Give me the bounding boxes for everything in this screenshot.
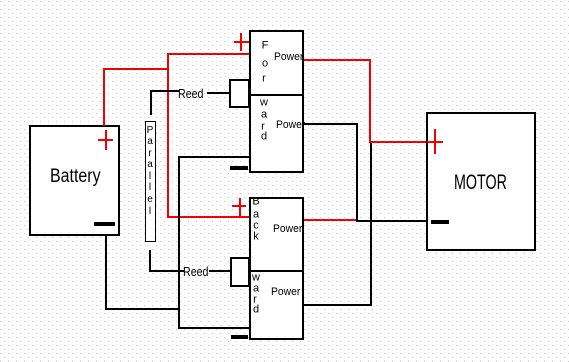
reed box K1 bbox=[229, 79, 250, 108]
plus mark forward relay horizontal bbox=[234, 41, 249, 43]
wire ground bus vertical bbox=[178, 156, 180, 329]
motor minus bbox=[431, 220, 449, 224]
wire reed1 horizontal left bbox=[150, 90, 179, 92]
relay U1 divider bbox=[249, 94, 304, 96]
motor box bbox=[426, 112, 536, 251]
relay U1 power bottom label bbox=[276, 119, 305, 131]
wire red to forward relay bbox=[167, 53, 249, 55]
plus mark forward relay vertical bbox=[240, 33, 242, 51]
minus mark backward relay bbox=[231, 335, 248, 339]
relay U1 forward box bbox=[249, 30, 304, 173]
wire red to backward relay bbox=[167, 216, 249, 218]
battery box bbox=[29, 125, 120, 236]
motor plus vertical bar bbox=[434, 129, 436, 154]
wire forward power out red horizontal bbox=[304, 59, 371, 61]
wire backward power2 vertical bbox=[370, 143, 372, 306]
wire reed2 horizontal right bbox=[209, 270, 230, 272]
relay U2 divider bbox=[249, 270, 304, 272]
reed2 label bbox=[183, 264, 208, 279]
battery plus vertical bar bbox=[105, 130, 107, 150]
minus mark forward relay bbox=[230, 166, 248, 170]
relay U2 power top label bbox=[273, 223, 302, 235]
wire backward power2 out horizontal bbox=[304, 304, 372, 306]
relay U1 power top label bbox=[274, 51, 303, 63]
wire battery plus horizontal bbox=[103, 68, 169, 70]
relay U2 letters Back bbox=[252, 196, 259, 207]
relay U2 letters ward bbox=[252, 272, 260, 283]
wire reed1 vertical bbox=[150, 90, 152, 115]
wire red vertical to motor bbox=[369, 59, 371, 143]
wire reed1 horizontal right bbox=[207, 92, 229, 94]
motor label bbox=[454, 170, 507, 195]
relay U2 power bottom label bbox=[271, 286, 300, 298]
wire battery minus vertical bbox=[105, 235, 107, 310]
parallel box bbox=[145, 121, 156, 242]
battery minus bbox=[94, 222, 115, 227]
wire to backward relay minus bbox=[178, 327, 250, 329]
plus mark backward relay horizontal bbox=[232, 205, 246, 207]
battery plus horizontal bar bbox=[98, 139, 113, 141]
wire backward power out red horizontal bbox=[304, 219, 358, 221]
relay U1 letters ward bbox=[260, 98, 268, 109]
reed1 label bbox=[178, 86, 203, 101]
wire parallel bottom horizontal bbox=[149, 270, 184, 272]
plus mark backward relay vertical bbox=[239, 198, 241, 216]
wire red main vertical bbox=[167, 53, 169, 218]
wire forward power2 out horizontal bbox=[304, 123, 358, 125]
wire battery minus horizontal bbox=[105, 308, 180, 310]
relay U1 letters For bbox=[262, 41, 269, 52]
motor plus horizontal bar bbox=[427, 141, 443, 143]
reed box K2 bbox=[230, 257, 250, 287]
relay U2 backward box bbox=[249, 197, 304, 340]
battery label bbox=[50, 166, 101, 188]
wire to motor minus horizontal bbox=[356, 220, 427, 222]
wire to forward relay minus bbox=[178, 156, 250, 158]
parallel letters bbox=[147, 126, 154, 136]
wire battery plus vertical bbox=[103, 68, 105, 126]
wire parallel bottom vertical bbox=[149, 250, 151, 271]
wire forward power2 vertical bbox=[356, 123, 358, 222]
wire red horizontal into motor plus bbox=[369, 141, 426, 143]
